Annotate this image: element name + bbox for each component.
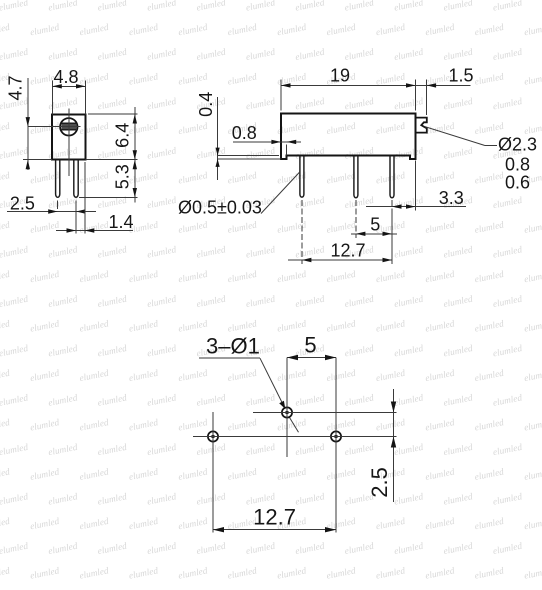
dimension 1.5 [427,66,474,116]
svg-text:0.8: 0.8 [232,123,257,143]
pad 2 (center) [282,407,292,417]
screw slot [61,123,76,129]
svg-text:4.8: 4.8 [53,67,78,87]
pad 1 (left) [208,431,218,441]
svg-text:19: 19 [330,66,350,86]
label 3-Ø1 with leader [199,334,298,433]
svg-text:0.6: 0.6 [505,173,530,193]
svg-text:0.4: 0.4 [196,92,216,117]
leader and label Ø2.3 / 0.8 / 0.6 [425,127,538,193]
dimension 5.3 [79,160,137,198]
dimension 2.5 (pin pitch) [7,194,96,234]
leader and label Ø0.5±0.03 [178,172,300,218]
svg-text:3–Ø1: 3–Ø1 [206,334,260,359]
dimension 19 [281,66,471,111]
svg-text:5: 5 [304,333,316,358]
dimension 12.7 (bottom view) [213,505,336,533]
side pin 3 [390,156,394,198]
dimension 0.8 (foot width) [232,123,301,156]
side view body with end standoff feet [281,113,416,159]
horizontal centerline [28,126,80,128]
svg-text:1.5: 1.5 [448,66,473,86]
svg-text:4.7: 4.7 [6,75,26,100]
svg-text:2.5: 2.5 [10,194,35,214]
vertical centerline [68,109,70,177]
left pin [56,160,60,198]
adjustment screw circle [60,118,77,135]
svg-text:Ø2.3: Ø2.3 [498,135,537,155]
dimension 0.4 (standoff height) [196,92,281,180]
svg-text:12.7: 12.7 [330,241,365,261]
svg-text:1.4: 1.4 [108,212,133,232]
front view body [52,115,86,160]
pad centerlines [193,358,397,533]
dimension 4.7 [6,75,53,170]
svg-text:2.5: 2.5 [367,467,392,498]
dimension 12.7 (pin 1-3 pitch) [288,200,392,264]
dimension 5 (bottom view) [287,333,336,361]
svg-text:3.3: 3.3 [439,188,464,208]
right pin [74,160,78,198]
adjustment screw pip [416,118,427,133]
dimension 5 (pin 2-3 pitch) [351,200,397,238]
dimension 2.5 (bottom view) [367,389,396,502]
dimension 3.3 [366,161,466,211]
dimension 6.4 [86,107,138,203]
side pin 1 [300,156,304,198]
pad 3 (right) [331,431,341,441]
svg-text:6.4: 6.4 [113,123,133,148]
svg-text:5.3: 5.3 [113,164,133,189]
dimension 1.4 [56,162,134,234]
svg-text:5: 5 [370,214,380,234]
dimension 4.8 [52,67,85,115]
svg-text:0.8: 0.8 [505,155,530,175]
side pin 2 [354,156,358,198]
svg-text:Ø0.5±0.03: Ø0.5±0.03 [178,198,262,218]
svg-text:12.7: 12.7 [253,505,296,530]
